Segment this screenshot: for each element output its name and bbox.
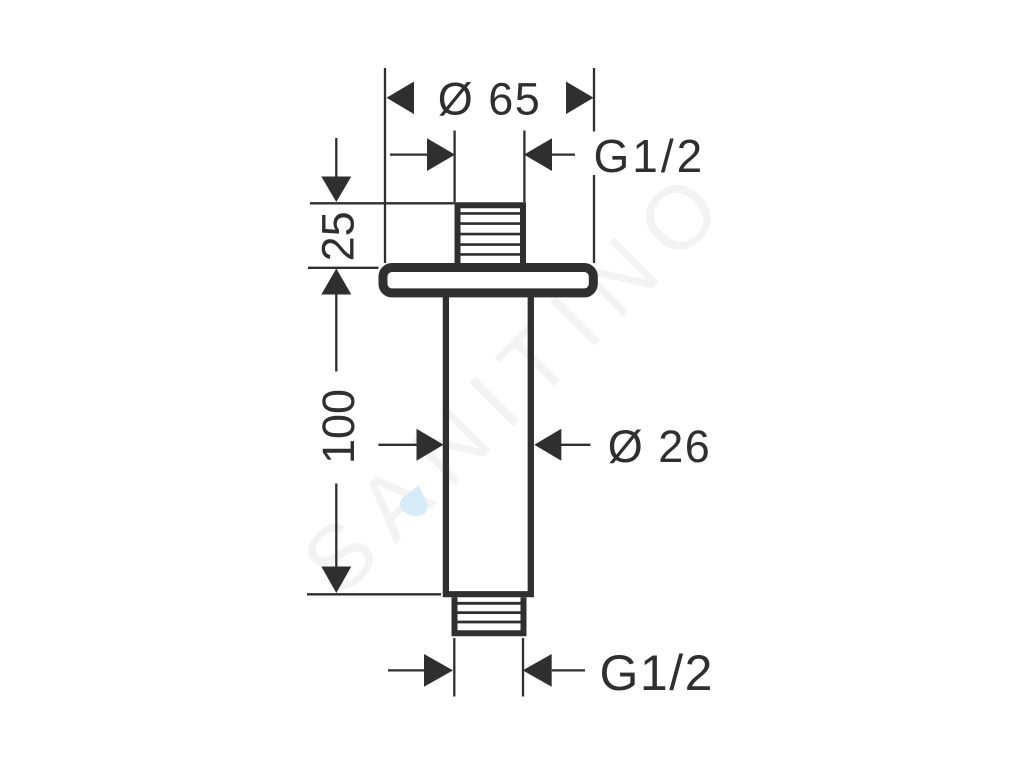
flange plate xyxy=(383,268,593,293)
arrow Ø65 right xyxy=(566,82,594,115)
extension line thread top xyxy=(310,202,455,204)
arrow G1/2 top right xyxy=(524,138,552,171)
dimension tail G1/2 bottom right xyxy=(552,669,585,671)
dimension 100 upper segment xyxy=(335,294,337,372)
extension line G1/2 top left xyxy=(453,131,455,203)
extension line Ø65 left xyxy=(384,68,386,263)
arrow Ø26 left xyxy=(417,429,444,461)
dimension 25 upper tail xyxy=(335,138,337,178)
dimension tail G1/2 top right xyxy=(552,153,575,155)
top thread line 1 xyxy=(461,212,521,215)
extension line Ø65 right upper xyxy=(593,68,595,132)
top thread line 4 xyxy=(461,243,521,246)
arrow G1/2 bottom right xyxy=(523,654,552,687)
bottom thread line 3 xyxy=(458,621,521,624)
watermark SANITINO xyxy=(284,146,751,613)
top thread line 3 xyxy=(461,233,521,236)
watermark water drop (counter of A) xyxy=(398,482,433,519)
svg-text:G1/2: G1/2 xyxy=(594,130,706,182)
arrow Ø26 right xyxy=(534,429,561,461)
dimension 100 lower segment xyxy=(335,484,337,568)
label 100 xyxy=(313,389,364,464)
arrow G1/2 bottom left xyxy=(424,654,453,687)
label 25 xyxy=(313,211,364,261)
extension line Ø65 right lower xyxy=(593,175,595,263)
extension line G1/2 bottom right xyxy=(522,638,524,697)
dimension tail G1/2 top left xyxy=(390,153,428,155)
bottom thread line 2 xyxy=(458,611,521,614)
extension line G1/2 bottom left xyxy=(453,638,455,697)
svg-text:G1/2: G1/2 xyxy=(600,645,714,701)
top thread line 5 xyxy=(461,253,521,256)
dimension tail Ø26 left xyxy=(378,444,418,446)
arrow 100 down xyxy=(321,567,351,594)
svg-text:Ø 65: Ø 65 xyxy=(438,74,542,125)
extension line G1/2 top right xyxy=(523,131,525,203)
arrow 25 down xyxy=(321,177,351,203)
svg-text:25: 25 xyxy=(313,211,364,261)
dimension tail G1/2 bottom left xyxy=(388,669,425,671)
top thread nipple G1/2 outline xyxy=(458,205,524,263)
extension line pipe bottom xyxy=(307,593,441,595)
pipe left wall xyxy=(443,297,449,594)
pipe bottom edge xyxy=(443,591,534,597)
arrow Ø65 left xyxy=(387,82,415,115)
top thread line 2 xyxy=(461,222,521,225)
bottom thread nipple G1/2 outline xyxy=(455,597,524,633)
bottom thread line 1 xyxy=(458,602,521,605)
pipe right wall xyxy=(528,297,534,594)
extension line flange top xyxy=(308,267,379,269)
svg-text:100: 100 xyxy=(313,389,364,464)
arrow G1/2 top left xyxy=(427,138,455,171)
svg-text:Ø 26: Ø 26 xyxy=(608,421,712,472)
dimension tail Ø26 right xyxy=(561,444,591,446)
arrow 100 up xyxy=(321,269,351,295)
